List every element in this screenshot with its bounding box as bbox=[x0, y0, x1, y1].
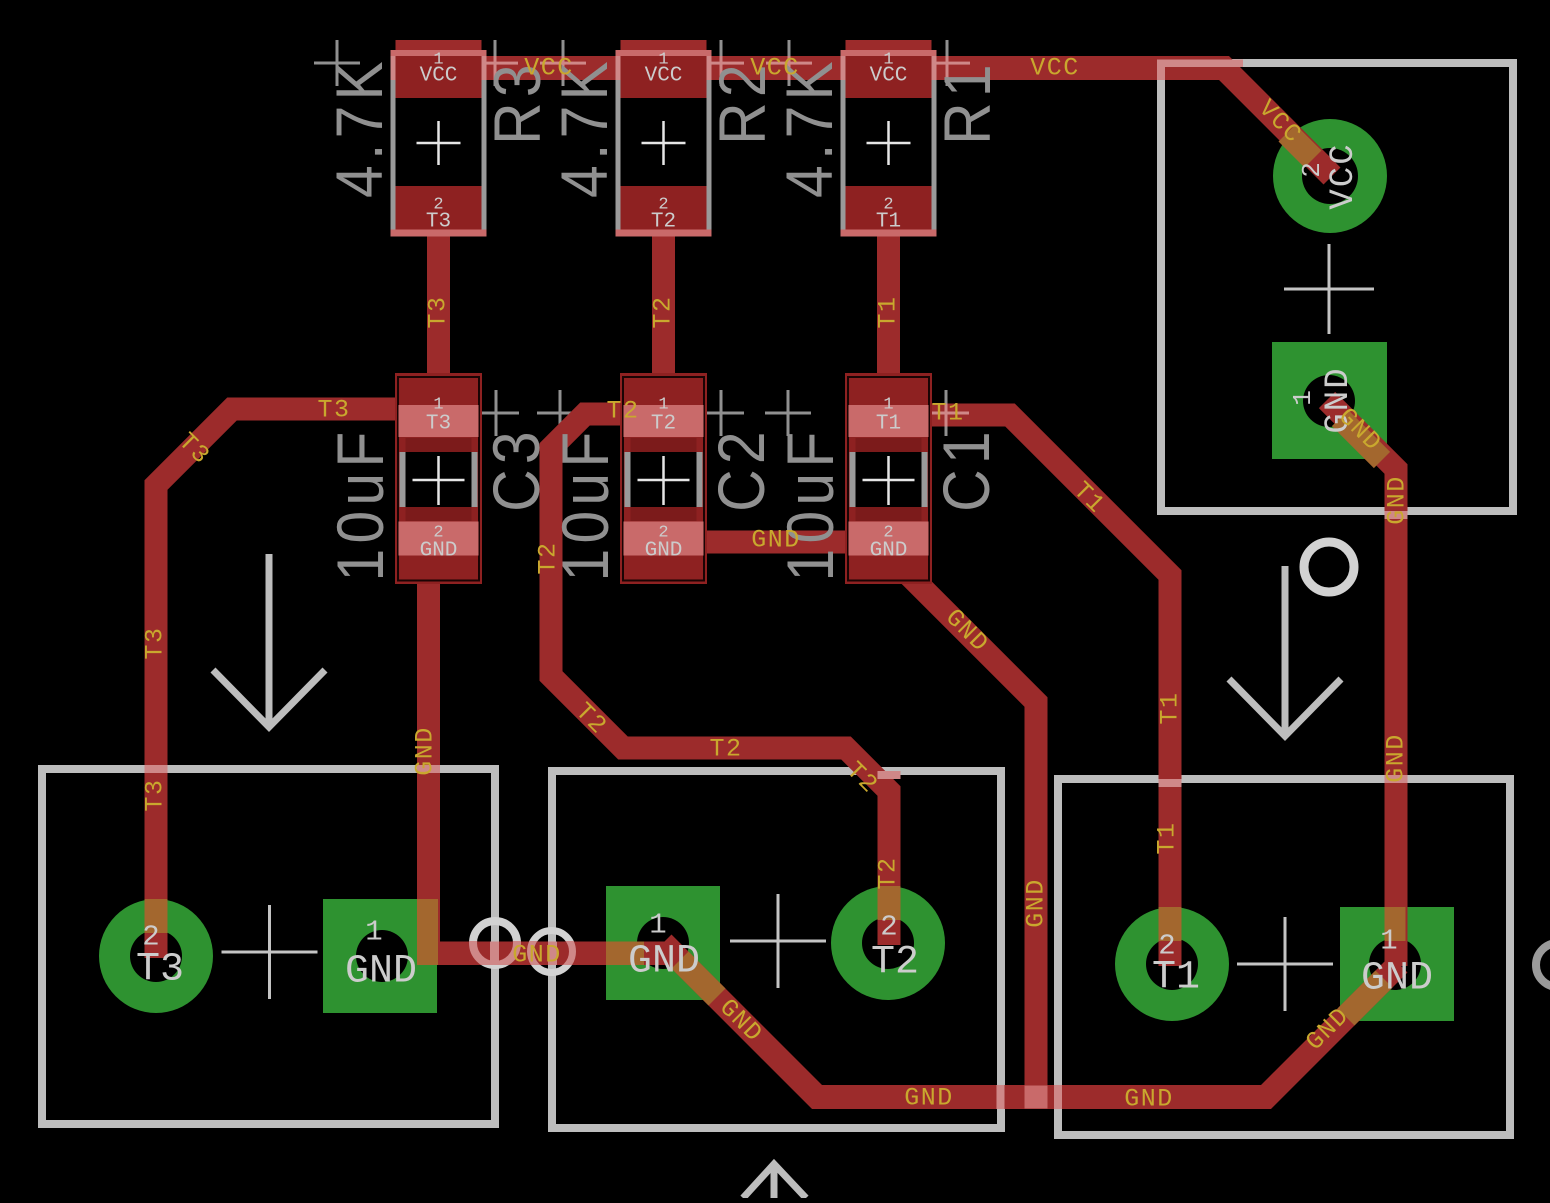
svg-text:T3: T3 bbox=[424, 295, 453, 328]
blend patch: silk cross over T1 trace near C1 bbox=[932, 412, 969, 415]
wire net T2: R2.2 to C2.1 bbox=[652, 230, 675, 415]
silkscreen crosses row (capacitors) bbox=[473, 390, 969, 436]
svg-text:VCC: VCC bbox=[645, 65, 683, 88]
svg-text:T1: T1 bbox=[1152, 956, 1200, 1001]
capacitor C1 (10uF on T1) bbox=[845, 373, 932, 584]
svg-text:T1: T1 bbox=[1156, 691, 1185, 724]
svg-text:T3: T3 bbox=[136, 948, 184, 993]
pad J3.1 GND (square) bbox=[1340, 907, 1454, 1021]
svg-text:VCC: VCC bbox=[420, 65, 458, 88]
svg-text:GND: GND bbox=[420, 540, 458, 563]
svg-text:GND: GND bbox=[904, 1084, 954, 1113]
svg-text:VCC: VCC bbox=[750, 54, 800, 83]
pad J3.2 T1 (round) bbox=[1115, 907, 1229, 1021]
wire net GND: J4.1 down to J3.1 bbox=[1327, 400, 1396, 966]
resistor R3 (T3 pull-up 4.7K) bbox=[391, 50, 487, 233]
hole H2 (white ring) bbox=[531, 931, 573, 973]
hole H1 (white ring) bbox=[473, 921, 517, 965]
silkscreen outline bottom-left connector J1 bbox=[42, 769, 495, 1124]
svg-text:C3: C3 bbox=[480, 426, 554, 512]
svg-text:GND: GND bbox=[1124, 1085, 1174, 1114]
svg-text:C1: C1 bbox=[930, 426, 1004, 512]
capacitor C3 (10uF on T3) bbox=[395, 373, 482, 584]
svg-text:T1: T1 bbox=[931, 399, 964, 428]
svg-text:GND: GND bbox=[628, 940, 700, 985]
svg-text:T2: T2 bbox=[709, 735, 742, 764]
svg-text:T1: T1 bbox=[1153, 821, 1182, 854]
blend patches: trace over silk / green bbox=[472, 56, 1313, 159]
pad J4.1 GND (square, top right) bbox=[1272, 342, 1387, 459]
svg-text:T3: T3 bbox=[426, 211, 451, 234]
silkscreen arrow (bottom middle, up partial) bbox=[743, 1164, 806, 1198]
pad J1.2 T3 (round) bbox=[99, 899, 213, 1013]
blend patches: bottom GND run bbox=[680, 960, 1384, 1109]
svg-text:T3: T3 bbox=[141, 626, 170, 659]
svg-text:GND: GND bbox=[751, 526, 801, 555]
svg-text:T3: T3 bbox=[317, 396, 350, 425]
svg-text:1: 1 bbox=[1288, 390, 1318, 406]
svg-text:T2: T2 bbox=[871, 941, 919, 986]
svg-text:1: 1 bbox=[1380, 925, 1397, 958]
svg-text:T1: T1 bbox=[876, 413, 901, 436]
silkscreen outline bottom-right connector J3 bbox=[1058, 779, 1510, 1135]
svg-text:10uF: 10uF bbox=[324, 426, 398, 581]
svg-text:T1: T1 bbox=[876, 211, 901, 234]
wire net GND: J1.1 to J2.1 bbox=[417, 942, 667, 966]
origin cross J3 bbox=[1237, 917, 1333, 1011]
wire net GND: J2.1 to J3.1 bottom run bbox=[663, 943, 1399, 1097]
svg-text:GND: GND bbox=[411, 726, 440, 776]
pad J4.2 VCC (round, top right) bbox=[1273, 119, 1387, 233]
capacitor C2 (10uF on T2) bbox=[620, 373, 707, 584]
svg-text:T2: T2 bbox=[874, 856, 903, 889]
resistor R1 (T1 pull-up 4.7K) bbox=[841, 50, 937, 233]
origin cross J1 bbox=[222, 905, 318, 999]
svg-text:T2: T2 bbox=[606, 397, 639, 426]
svg-text:VCC: VCC bbox=[1030, 54, 1080, 83]
svg-text:GND: GND bbox=[1361, 957, 1433, 1002]
silkscreen outline bottom-middle connector J2 bbox=[552, 771, 1001, 1128]
svg-text:VCC: VCC bbox=[1325, 142, 1363, 209]
svg-text:T3: T3 bbox=[426, 413, 451, 436]
svg-text:T2: T2 bbox=[534, 541, 563, 574]
origin cross J2 bbox=[730, 894, 826, 988]
svg-text:T2: T2 bbox=[651, 211, 676, 234]
wire net T1: R1.2 to C1.1 bbox=[877, 230, 900, 415]
svg-text:GND: GND bbox=[1382, 733, 1411, 783]
wire net T2: C2.1 to J2.2 bbox=[551, 414, 889, 945]
svg-text:GND: GND bbox=[512, 941, 562, 970]
svg-text:T1: T1 bbox=[874, 295, 903, 328]
svg-text:VCC: VCC bbox=[524, 54, 574, 83]
pad J2.1 GND (square) bbox=[606, 886, 720, 1000]
svg-text:1: 1 bbox=[365, 916, 382, 949]
blend patches: T1 trace over J3 bbox=[1159, 779, 1182, 941]
svg-text:T3: T3 bbox=[141, 778, 170, 811]
silkscreen outline top-right connector J4 bbox=[1161, 63, 1513, 511]
svg-text:GND: GND bbox=[345, 950, 417, 995]
resistor R2 (T2 pull-up 4.7K) bbox=[616, 50, 712, 233]
svg-text:10uF: 10uF bbox=[774, 426, 848, 581]
wire net T3: R3.2 to C3.1 bbox=[427, 230, 450, 415]
blend patches: GND via C3 bbox=[417, 765, 644, 973]
wire net VCC: R pads row to J4.2 bbox=[396, 68, 1332, 176]
svg-text:GND: GND bbox=[645, 540, 683, 563]
silkscreen arrow (right, down) bbox=[1229, 566, 1341, 736]
svg-text:GND: GND bbox=[870, 540, 908, 563]
wire net GND: C1.2 down right bbox=[886, 552, 1036, 1100]
svg-text:VCC: VCC bbox=[870, 65, 908, 88]
pad J2.2 T2 (round) bbox=[831, 886, 945, 1000]
svg-text:2: 2 bbox=[1297, 162, 1327, 178]
silkscreen arrow (left, down) bbox=[213, 554, 325, 727]
silkscreen arc at right edge bbox=[1536, 943, 1550, 987]
svg-text:1: 1 bbox=[649, 909, 666, 942]
pad J1.1 GND (square) bbox=[323, 899, 437, 1013]
svg-text:T2: T2 bbox=[649, 295, 678, 328]
hole H3 (white ring, right block) bbox=[1304, 542, 1354, 592]
blend patches: T2 trace over J2 bbox=[878, 771, 901, 920]
svg-text:T2: T2 bbox=[651, 413, 676, 436]
silkscreen crosses row (resistors) bbox=[314, 40, 970, 86]
wire net GND: C2.2 to C1.2 bbox=[700, 531, 846, 554]
blend patches: T3 trace bbox=[145, 765, 168, 933]
svg-text:GND: GND bbox=[1022, 878, 1051, 928]
svg-text:4.7K: 4.7K bbox=[323, 56, 397, 198]
origin cross J4 bbox=[1284, 244, 1374, 334]
blend patches: GND J4 to J3 bbox=[1340, 418, 1408, 941]
wire net GND: C3.2 down to J1.1 bbox=[417, 556, 440, 956]
wire net T1: C1.1 to J3.2 bbox=[932, 415, 1170, 966]
svg-text:2: 2 bbox=[880, 911, 897, 944]
wire net T3: C3.1 to J1.2 bbox=[156, 409, 396, 958]
svg-text:R1: R1 bbox=[931, 59, 1005, 145]
svg-text:C2: C2 bbox=[705, 426, 779, 512]
svg-text:GND: GND bbox=[1383, 475, 1412, 525]
